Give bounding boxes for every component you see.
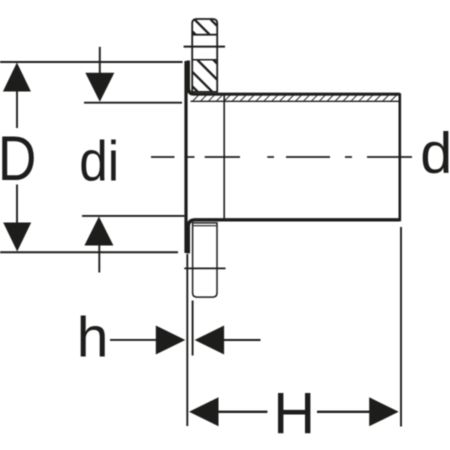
svg-text:h: h (77, 306, 109, 370)
pipe bottom wall and lower collar lip (thick L) (188, 220, 399, 254)
dimension D line upper (16, 91, 18, 128)
flange band separator line 2 (192, 59, 217, 61)
dimension di line above (99, 47, 101, 74)
dimension h arrow right (156, 326, 186, 355)
bolt hole axis upper (184, 46, 225, 48)
dimension H line left (218, 411, 267, 413)
dimension D arrow down (3, 223, 31, 252)
dimension H extension line right (400, 227, 402, 427)
centerline (151, 156, 412, 158)
flange upper bottom edge (192, 91, 217, 93)
flange band separator line 1 (192, 34, 217, 36)
dimension h line left (110, 339, 157, 341)
svg-text:d: d (420, 121, 450, 185)
dimension H arrow right (369, 397, 399, 426)
bolt hole axis lower (184, 267, 225, 269)
svg-text:di: di (79, 130, 119, 193)
loose flange lower section outline (193, 223, 217, 297)
pipe end edge (398, 93, 401, 221)
dimension di arrow down (85, 73, 114, 102)
bore inner face line (223, 95, 225, 220)
svg-text:H: H (273, 381, 315, 446)
dimension H line right (317, 411, 370, 413)
dimension h extension line right (192, 301, 194, 356)
loose flange upper section outline (192, 19, 217, 93)
dimension D extension line top (0, 61, 183, 63)
flange lower inner top line (193, 225, 216, 227)
stub-end collar lip upper (thick L) (188, 61, 399, 95)
pipe top wall inner line (191, 100, 400, 102)
dimension D extension line bottom (0, 251, 178, 253)
stub face vertical line (184, 61, 187, 253)
svg-text:D: D (0, 123, 36, 193)
flange upper hatch band 1 (192, 19, 217, 34)
dimension di line below (98, 246, 100, 273)
dimension H arrow left (189, 397, 219, 426)
pipe top wall hatch strip (191, 96, 400, 101)
dimension h extension line left (186, 254, 188, 426)
dimension di arrow up (84, 217, 113, 246)
dimension di extension line bottom (82, 215, 184, 217)
dimension h arrow left (195, 326, 225, 355)
dimension h line right (224, 339, 261, 341)
flange upper hatch band 2 (192, 60, 217, 92)
dimension D line lower (16, 185, 18, 224)
dimension D arrow up (3, 63, 31, 92)
dimension di extension line top (84, 102, 182, 104)
